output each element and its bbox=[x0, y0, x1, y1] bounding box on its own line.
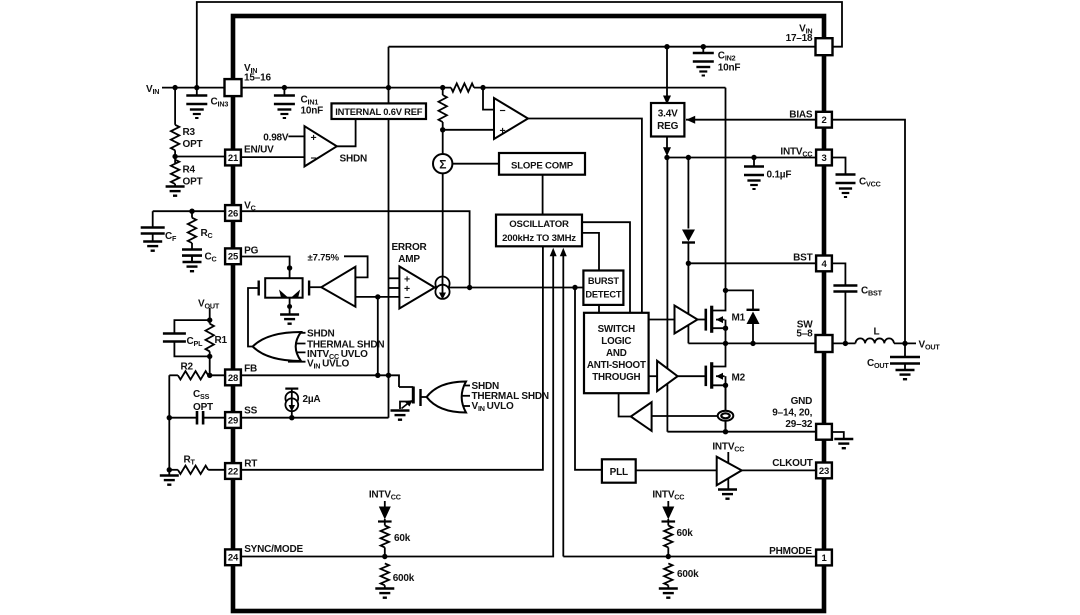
svg-text:0.1µF: 0.1µF bbox=[767, 170, 792, 181]
svg-text:AMP: AMP bbox=[398, 254, 420, 265]
svg-text:28: 28 bbox=[228, 373, 238, 384]
svg-text:ANTI-SHOOT: ANTI-SHOOT bbox=[587, 360, 646, 371]
svg-text:2µA: 2µA bbox=[303, 394, 321, 405]
svg-text:VIN UVLO: VIN UVLO bbox=[307, 359, 349, 371]
svg-text:15–16: 15–16 bbox=[244, 73, 271, 84]
svg-text:BIAS: BIAS bbox=[789, 110, 813, 121]
svg-text:OPT: OPT bbox=[193, 402, 213, 413]
svg-text:60k: 60k bbox=[677, 528, 694, 539]
svg-text:OPT: OPT bbox=[183, 177, 203, 188]
svg-text:22: 22 bbox=[228, 466, 238, 477]
svg-text:−: − bbox=[311, 153, 317, 165]
svg-text:REG: REG bbox=[657, 121, 678, 132]
svg-text:26: 26 bbox=[228, 208, 238, 219]
svg-text:5–8: 5–8 bbox=[796, 329, 813, 340]
svg-text:PHMODE: PHMODE bbox=[769, 546, 812, 557]
svg-text:600k: 600k bbox=[393, 573, 415, 584]
svg-text:25: 25 bbox=[228, 252, 239, 263]
svg-text:24: 24 bbox=[228, 553, 239, 564]
svg-text:SHDN: SHDN bbox=[307, 329, 335, 340]
svg-text:SLOPE COMP: SLOPE COMP bbox=[511, 161, 574, 172]
svg-text:DETECT: DETECT bbox=[585, 290, 622, 300]
svg-text:R1: R1 bbox=[215, 335, 228, 346]
svg-text:±7.75%: ±7.75% bbox=[308, 253, 340, 264]
svg-text:CLKOUT: CLKOUT bbox=[772, 458, 813, 469]
svg-text:+: + bbox=[500, 125, 506, 137]
svg-text:THROUGH: THROUGH bbox=[592, 372, 640, 383]
svg-text:RT: RT bbox=[244, 459, 257, 470]
svg-text:R2: R2 bbox=[181, 362, 194, 373]
svg-text:10nF: 10nF bbox=[301, 106, 324, 117]
svg-text:9–14, 20,: 9–14, 20, bbox=[772, 408, 812, 419]
svg-text:M2: M2 bbox=[732, 373, 746, 384]
svg-text:SS: SS bbox=[244, 406, 257, 417]
svg-text:21: 21 bbox=[228, 153, 239, 164]
svg-text:SHDN: SHDN bbox=[340, 154, 368, 165]
svg-text:GND: GND bbox=[791, 396, 813, 407]
svg-text:OPT: OPT bbox=[183, 139, 203, 150]
svg-text:VIN UVLO: VIN UVLO bbox=[472, 401, 514, 413]
svg-text:AND: AND bbox=[606, 348, 627, 359]
svg-text:−: − bbox=[404, 292, 410, 304]
svg-text:10nF: 10nF bbox=[718, 63, 741, 74]
svg-text:200kHz TO 3MHz: 200kHz TO 3MHz bbox=[502, 233, 576, 244]
svg-text:R4: R4 bbox=[183, 165, 196, 176]
svg-text:ERROR: ERROR bbox=[391, 242, 427, 253]
svg-text:0.98V: 0.98V bbox=[263, 133, 289, 144]
svg-text:BURST: BURST bbox=[588, 276, 620, 286]
svg-text:17–18: 17–18 bbox=[786, 33, 813, 44]
svg-text:FB: FB bbox=[244, 364, 257, 375]
svg-text:SWITCH: SWITCH bbox=[598, 324, 636, 335]
svg-text:INTERNAL 0.6V REF: INTERNAL 0.6V REF bbox=[335, 106, 423, 117]
svg-text:EN/UV: EN/UV bbox=[244, 145, 274, 156]
svg-text:OSCILLATOR: OSCILLATOR bbox=[509, 219, 569, 230]
svg-text:3: 3 bbox=[821, 153, 826, 164]
svg-text:60k: 60k bbox=[394, 533, 411, 544]
svg-text:29: 29 bbox=[228, 415, 238, 426]
svg-text:2: 2 bbox=[821, 115, 826, 126]
svg-text:600k: 600k bbox=[677, 569, 699, 580]
svg-text:PLL: PLL bbox=[610, 467, 628, 478]
svg-text:−: − bbox=[500, 105, 506, 117]
svg-text:BST: BST bbox=[793, 252, 812, 263]
svg-text:+: + bbox=[311, 132, 317, 144]
svg-text:PG: PG bbox=[244, 246, 258, 257]
svg-text:L: L bbox=[874, 327, 880, 338]
svg-text:29–32: 29–32 bbox=[785, 419, 812, 430]
svg-text:R3: R3 bbox=[183, 127, 196, 138]
svg-text:M1: M1 bbox=[732, 313, 746, 324]
svg-text:3.4V: 3.4V bbox=[658, 109, 678, 120]
svg-text:Σ: Σ bbox=[439, 157, 446, 171]
svg-text:23: 23 bbox=[819, 466, 829, 477]
svg-text:SYNC/MODE: SYNC/MODE bbox=[244, 544, 303, 555]
svg-text:LOGIC: LOGIC bbox=[601, 336, 631, 347]
